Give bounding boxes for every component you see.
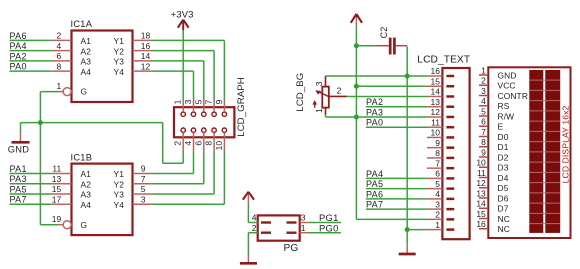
svg-text:13: 13 <box>476 188 486 198</box>
LCD display cell separator 11 <box>529 182 560 184</box>
svg-text:PG0: PG0 <box>319 222 339 233</box>
LCD display module box <box>488 67 570 238</box>
wire IC1B pin 5 horizontal <box>153 193 215 195</box>
LCD display cell separator 12 <box>529 192 560 194</box>
IC1A pin 14 output stub <box>133 51 153 61</box>
svg-text:A1: A1 <box>81 36 92 46</box>
LCD_GRAPH pin 7 stub <box>213 99 215 112</box>
wire GND vertical IC1A G to IC1B G <box>39 92 41 225</box>
LCD_GRAPH pin 10 stub <box>223 133 225 152</box>
IC1A pin name A2 <box>81 46 92 56</box>
wire IC1A G pin <box>40 91 57 93</box>
svg-text:7: 7 <box>481 127 486 137</box>
wire net PA5 to LCD_TEXT pin 5 <box>366 188 427 190</box>
PG pin 3 dash <box>287 213 306 223</box>
wire PG pin 2 to ground <box>248 233 257 262</box>
+3V3 power arrow above C2 <box>351 14 362 25</box>
wire net PA3 to IC1B pin 13 <box>10 183 52 185</box>
wire IC1A pin 16 vertical down to LCD_GRAPH <box>213 51 215 99</box>
junction GND / LCD_TEXT pin 16 / trimmer pin 3 <box>405 74 410 79</box>
svg-text:E: E <box>498 122 504 132</box>
PG pin 1 dash <box>287 223 306 233</box>
LCD_GRAPH pin 10 number <box>214 141 224 151</box>
svg-text:1: 1 <box>314 108 324 113</box>
node PG1 label <box>319 212 339 223</box>
LCD_GRAPH pin 7 number <box>204 99 214 104</box>
IC1A pin name G <box>81 87 88 97</box>
svg-text:IC1A: IC1A <box>71 19 93 29</box>
IC1B pin name G <box>81 220 88 230</box>
junction GND / LCD_TEXT pin 1 <box>405 227 410 232</box>
LCD_TEXT pin 1 dash <box>446 228 454 231</box>
IC1A pin 1 (G) inverted bubble <box>56 81 71 96</box>
node PA3 label at LCD_TEXT <box>366 107 383 117</box>
svg-text:D6: D6 <box>498 193 509 203</box>
svg-text:GND: GND <box>8 145 29 155</box>
wire net PG0 <box>309 232 341 234</box>
LCD_GRAPH pin 3 number <box>183 99 193 104</box>
svg-text:PA0: PA0 <box>366 118 383 128</box>
svg-text:2: 2 <box>173 141 183 146</box>
svg-text:PA5: PA5 <box>366 179 383 189</box>
node PA0 label <box>10 62 27 72</box>
wire IC1B G pin <box>40 224 57 226</box>
svg-text:11: 11 <box>52 164 61 174</box>
svg-text:2: 2 <box>337 86 342 96</box>
svg-text:11: 11 <box>431 117 440 127</box>
LCD_GRAPH pin 1 number <box>173 99 183 104</box>
LCD_GRAPH pin 9 socket <box>222 112 226 116</box>
LCD display pin 13 stub <box>476 188 488 198</box>
LCD display pin 9 stub <box>479 147 488 157</box>
LCD_TEXT pin 13 dash <box>446 105 454 108</box>
trimmer LCD_BG label <box>295 73 306 112</box>
PG pin 3 stub <box>300 222 309 224</box>
IC1B pin name Y3 <box>114 190 125 200</box>
wire net PA7 to IC1B pin 17 <box>10 203 52 205</box>
svg-text:D3: D3 <box>498 163 509 173</box>
wire GND junction to LCD_TEXT pin 1 <box>407 229 427 231</box>
LCD_GRAPH pin 5 stub <box>203 99 205 112</box>
node PA6 label <box>10 31 27 41</box>
IC1A pin name A4 <box>81 67 92 77</box>
wire net PA5 to IC1B pin 15 <box>10 193 52 195</box>
wire +3V3 elbow to LCD_TEXT pin 2 <box>356 218 427 220</box>
svg-text:D7: D7 <box>498 204 509 214</box>
IC1A pin 16 output stub <box>133 41 153 51</box>
ground symbol below LCD_TEXT <box>399 253 416 256</box>
svg-text:D1: D1 <box>498 142 509 152</box>
svg-text:8: 8 <box>56 61 61 71</box>
LCD_TEXT pin 16 dash <box>446 75 454 78</box>
svg-text:8: 8 <box>435 148 440 158</box>
LCD_GRAPH pin 2 socket <box>181 128 185 132</box>
LCD_TEXT pin 15 stub <box>427 76 442 86</box>
LCD display cell separator 5 <box>529 120 560 122</box>
svg-text:A4: A4 <box>81 200 92 210</box>
svg-text:3: 3 <box>435 199 440 209</box>
LCD_GRAPH pin 8 socket <box>212 128 216 132</box>
IC1A pin name A1 <box>81 36 92 46</box>
svg-text:PA4: PA4 <box>366 169 383 179</box>
LCD display pin 12 stub <box>476 178 488 188</box>
wire IC1B pin 7 vertical up to LCD_GRAPH <box>203 152 205 184</box>
LCD_GRAPH pin 5 number <box>193 99 203 104</box>
svg-text:3: 3 <box>481 86 486 96</box>
LCD_TEXT pin 11 stub <box>427 117 442 127</box>
LCD_TEXT pin 15 dash <box>446 85 454 88</box>
wire IC1B pin 7 horizontal <box>153 183 204 185</box>
connector LCD_TEXT box <box>417 55 470 240</box>
LCD_GRAPH pin 4 stub <box>193 133 195 152</box>
svg-text:6: 6 <box>56 51 61 61</box>
LCD_GRAPH pin 3 stub <box>193 99 195 112</box>
svg-text:1: 1 <box>56 81 61 91</box>
wire IC1A pin 12 vertical down to LCD_GRAPH <box>193 71 195 99</box>
wire IC1A pin 18 vertical down to LCD_GRAPH <box>223 40 225 99</box>
wire net PA2 to LCD_TEXT pin 13 <box>366 106 427 108</box>
LCD display pin 10 stub <box>476 158 488 168</box>
wire +3V3 vertical rail <box>355 25 357 219</box>
IC1A pin name Y3 <box>114 57 125 67</box>
svg-text:6: 6 <box>435 169 440 179</box>
IC IC1A buffer box <box>71 19 133 102</box>
LCD display pin name RS <box>498 101 510 111</box>
wire net PA3 row to LCD_TEXT pin 12 <box>326 116 428 118</box>
node PA0 label at LCD_TEXT <box>366 118 383 128</box>
svg-text:CONTR: CONTR <box>498 91 529 101</box>
svg-text:PA5: PA5 <box>10 184 27 194</box>
svg-text:D4: D4 <box>498 173 509 183</box>
node PA4 label at LCD_TEXT <box>366 169 383 179</box>
svg-text:10: 10 <box>476 158 486 168</box>
LCD_TEXT pin 11 dash <box>446 126 454 129</box>
svg-text:9: 9 <box>214 99 224 104</box>
LCD_GRAPH pin 8 stub <box>213 133 215 152</box>
trimmer wiper pin 2 <box>329 86 347 97</box>
LCD_TEXT pin 4 stub <box>427 189 442 199</box>
wire IC1A pin 14 horizontal <box>153 60 204 62</box>
trimmer pin 3 stub <box>325 76 327 87</box>
svg-text:10: 10 <box>214 141 224 151</box>
svg-text:LCD_TEXT: LCD_TEXT <box>417 55 470 66</box>
LCD_TEXT pin 13 stub <box>427 97 442 107</box>
LCD_TEXT pin 9 stub <box>427 138 442 148</box>
LCD_TEXT pin 6 dash <box>446 177 454 180</box>
LCD_GRAPH pin 9 stub <box>223 99 225 112</box>
connector LCD_GRAPH box <box>174 107 234 137</box>
svg-text:GND: GND <box>498 70 517 80</box>
IC1B pin name A3 <box>81 190 92 200</box>
svg-text:7: 7 <box>204 99 214 104</box>
connector LCD_GRAPH label <box>236 77 247 137</box>
IC1A pin 12 output stub <box>133 61 153 71</box>
LCD display glass column left <box>529 70 543 233</box>
capacitor C2 left pin <box>377 45 389 47</box>
LCD_TEXT pin 7 dash <box>446 167 454 170</box>
LCD display glass column right <box>545 70 560 233</box>
IC1A pin 18 output stub <box>133 31 153 41</box>
svg-text:PA6: PA6 <box>10 31 27 41</box>
LCD_TEXT pin 2 stub <box>427 210 442 220</box>
svg-text:G: G <box>81 220 88 230</box>
svg-text:A2: A2 <box>81 46 92 56</box>
wire IC1A pin 14 vertical down to LCD_GRAPH <box>203 61 205 99</box>
node PA5 label at LCD_TEXT <box>366 179 383 189</box>
LCD_GRAPH pin 4 socket <box>191 128 195 132</box>
LCD display pin name D0 <box>498 132 509 142</box>
svg-text:6: 6 <box>481 117 486 127</box>
svg-text:14: 14 <box>141 51 151 61</box>
svg-text:PG: PG <box>284 243 299 254</box>
LCD display pin 8 stub <box>479 137 488 147</box>
LCD display cell separator 2 <box>529 89 560 91</box>
IC1B pin name Y2 <box>114 179 125 189</box>
node PG0 label <box>319 222 339 233</box>
svg-text:2: 2 <box>435 210 440 220</box>
wire net PA0 to LCD_TEXT pin 11 <box>366 126 427 128</box>
wire GND to LCD_GRAPH pin 2: vertical <box>162 123 164 164</box>
LCD display cell separator 8 <box>529 151 560 153</box>
LCD_TEXT pin 5 dash <box>446 187 454 190</box>
LCD display pin name D2 <box>498 152 509 162</box>
LCD display pin name D4 <box>498 173 509 183</box>
svg-text:8: 8 <box>204 141 214 146</box>
LCD_TEXT pin 16 stub <box>427 66 442 76</box>
LCD display pin 16 stub <box>476 219 488 229</box>
svg-text:PA7: PA7 <box>366 200 383 210</box>
capacitor C2 <box>379 27 395 55</box>
LCD display pin name E <box>498 122 504 132</box>
svg-text:D5: D5 <box>498 183 509 193</box>
LCD display cell separator 4 <box>529 110 560 112</box>
svg-text:18: 18 <box>141 31 151 41</box>
svg-text:Y3: Y3 <box>114 57 125 67</box>
wire +3V3 down to LCD_GRAPH pin 1 <box>182 30 184 99</box>
IC IC1B buffer box <box>71 152 133 235</box>
svg-text:A1: A1 <box>81 169 92 179</box>
svg-text:Y2: Y2 <box>114 46 125 56</box>
PG pin 4 dash <box>252 213 271 223</box>
IC1B pin 13 (A2) input stub <box>51 174 71 184</box>
svg-text:1: 1 <box>481 65 486 75</box>
svg-text:NC: NC <box>498 224 510 234</box>
svg-text:A3: A3 <box>81 190 92 200</box>
svg-text:PA2: PA2 <box>366 97 383 107</box>
LCD display pin 5 stub <box>479 106 488 116</box>
svg-text:16: 16 <box>431 66 441 76</box>
LCD display cell separator 15 <box>529 223 560 225</box>
junction +3V3 / trimmer pin 1 / PA3 <box>354 114 359 119</box>
LCD_TEXT pin 5 stub <box>427 179 442 189</box>
IC1B pin 5 output stub <box>133 184 153 194</box>
LCD display pin 1 stub <box>479 65 488 75</box>
LCD_GRAPH pin 6 number <box>193 141 203 146</box>
svg-text:2: 2 <box>481 76 486 86</box>
LCD display cell separator 7 <box>529 141 560 143</box>
LCD_TEXT pin 6 stub <box>427 169 442 179</box>
LCD_TEXT pin 12 stub <box>427 107 442 117</box>
svg-text:+3V3: +3V3 <box>171 9 194 20</box>
svg-text:3: 3 <box>141 194 146 204</box>
svg-text:Y4: Y4 <box>114 67 125 77</box>
LCD_GRAPH pin 10 socket <box>222 128 226 132</box>
wire net PA6 to LCD_TEXT pin 4 <box>366 198 427 200</box>
svg-text:LCD_BG: LCD_BG <box>295 73 306 112</box>
svg-text:VCC: VCC <box>498 81 516 91</box>
wire +3V3 to C2 <box>356 45 376 47</box>
svg-text:15: 15 <box>431 76 441 86</box>
trimmer wiper arrow <box>315 90 328 96</box>
LCD display pin name D5 <box>498 183 509 193</box>
node PA5 label <box>10 184 27 194</box>
svg-text:Y1: Y1 <box>114 36 125 46</box>
LCD display pin name D3 <box>498 163 509 173</box>
svg-text:13: 13 <box>52 174 62 184</box>
svg-text:4: 4 <box>435 189 440 199</box>
LCD_TEXT pin 14 stub <box>427 87 442 97</box>
wire net PA4 to LCD_TEXT pin 6 <box>366 177 427 179</box>
LCD display pin 14 stub <box>476 199 488 209</box>
wire IC1B pin 9 vertical up to LCD_GRAPH <box>193 152 195 174</box>
LCD_TEXT pin 9 dash <box>446 146 454 149</box>
IC1B pin 15 (A3) input stub <box>51 184 71 194</box>
LCD_GRAPH pin 2 number <box>173 141 183 146</box>
svg-text:PA0: PA0 <box>10 62 27 72</box>
wire net PA2 to IC1A pin 6 <box>10 60 52 62</box>
svg-text:16: 16 <box>476 219 486 229</box>
svg-text:Y3: Y3 <box>114 190 125 200</box>
IC1A pin 2 (A1) input stub <box>51 31 71 41</box>
LCD display value label <box>561 106 571 184</box>
node PA4 label <box>10 41 27 51</box>
trimmer LCD_BG body <box>322 87 329 108</box>
LCD_TEXT pin 14 dash <box>446 95 454 98</box>
node PA2 label <box>10 51 27 61</box>
LCD display pin 4 stub <box>479 96 488 106</box>
svg-text:1: 1 <box>435 220 440 230</box>
wire GND up into LCD_GRAPH pin 2 <box>182 152 184 164</box>
LCD display pin name NC <box>498 214 510 224</box>
svg-text:C2: C2 <box>379 27 389 39</box>
trimmer pin 3 number <box>314 81 324 86</box>
wire IC1B pin 5 vertical up to LCD_GRAPH <box>213 152 215 194</box>
svg-text:9: 9 <box>481 147 486 157</box>
wire +3V3 to PG pin 4 <box>248 203 257 223</box>
svg-text:12: 12 <box>431 107 441 117</box>
capacitor C2 right pin <box>396 45 407 47</box>
LCD display cell separator 9 <box>529 161 560 163</box>
wire IC1B pin 3 vertical up to LCD_GRAPH <box>223 152 225 205</box>
LCD_GRAPH pin 9 number <box>214 99 224 104</box>
svg-text:PA3: PA3 <box>366 107 383 117</box>
LCD display pin 2 stub <box>479 76 488 86</box>
svg-text:A4: A4 <box>81 67 92 77</box>
LCD display pin 3 stub <box>479 86 488 96</box>
svg-text:PA3: PA3 <box>10 174 27 184</box>
svg-text:4: 4 <box>252 213 257 223</box>
svg-text:D0: D0 <box>498 132 509 142</box>
IC1B pin name A2 <box>81 179 92 189</box>
node PA6 label at LCD_TEXT <box>366 189 383 199</box>
PG pin 1 stub <box>300 232 309 234</box>
wire trimmer pin 3 to LCD_TEXT pin 16 <box>326 75 428 77</box>
ground symbol below PG <box>240 262 257 265</box>
IC1B pin 17 (A4) input stub <box>51 194 71 204</box>
svg-text:RS: RS <box>498 101 510 111</box>
LCD display pin name GND <box>498 70 517 80</box>
svg-text:5: 5 <box>481 106 486 116</box>
LCD display cell separator 14 <box>529 212 560 214</box>
LCD display pin name VCC <box>498 81 516 91</box>
IC1A pin name Y2 <box>114 46 125 56</box>
svg-text:8: 8 <box>481 137 486 147</box>
svg-text:G: G <box>81 87 88 97</box>
LCD_GRAPH pin 1 stub <box>182 99 184 112</box>
svg-text:A2: A2 <box>81 179 92 189</box>
svg-text:PA7: PA7 <box>10 195 27 205</box>
svg-text:15: 15 <box>476 209 486 219</box>
wire net PA4 to IC1A pin 4 <box>10 50 52 52</box>
svg-text:12: 12 <box>141 61 151 71</box>
IC1B pin name Y4 <box>114 200 125 210</box>
IC1B pin 19 (G) inverted bubble <box>52 214 71 229</box>
wire IC1A pin 18 horizontal <box>153 39 225 41</box>
wire net PA6 to IC1A pin 2 <box>10 39 52 41</box>
wire trimmer pin 1 down <box>325 115 327 117</box>
svg-text:9: 9 <box>435 138 440 148</box>
LCD display pin name D1 <box>498 142 509 152</box>
wire GND to LCD_GRAPH pin 2: horizontal <box>163 162 184 164</box>
IC1B pin name A1 <box>81 169 92 179</box>
wire IC1A pin 12 horizontal <box>153 70 194 72</box>
svg-text:A3: A3 <box>81 57 92 67</box>
LCD_TEXT pin 10 stub <box>427 128 442 138</box>
LCD_TEXT pin 2 dash <box>446 218 454 221</box>
LCD_GRAPH pin 7 socket <box>212 112 216 116</box>
junction +3V3 / LCD_TEXT pin 15 <box>354 84 359 89</box>
wire GND vertical rail <box>406 47 408 245</box>
LCD display pin name NC <box>498 224 510 234</box>
+3V3 power arrow above PG <box>243 192 254 203</box>
svg-text:7: 7 <box>141 174 146 184</box>
trimmer pin 1 number <box>314 108 324 113</box>
svg-text:11: 11 <box>477 168 486 178</box>
LCD display pin name D6 <box>498 193 509 203</box>
LCD display pin name CONTR <box>498 91 529 101</box>
IC1A pin 8 (A4) input stub <box>51 61 71 71</box>
svg-text:Y2: Y2 <box>114 179 125 189</box>
LCD display pin name D7 <box>498 204 509 214</box>
LCD_TEXT pin 3 stub <box>427 199 442 209</box>
wire IC1B pin 9 horizontal <box>153 173 194 175</box>
IC1A pin 6 (A3) input stub <box>51 51 71 61</box>
svg-text:2: 2 <box>56 31 61 41</box>
svg-text:PA2: PA2 <box>10 51 27 61</box>
LCD_TEXT pin 7 stub <box>427 158 442 168</box>
svg-text:3: 3 <box>183 99 193 104</box>
LCD display cell separator 1 <box>529 79 560 81</box>
svg-text:5: 5 <box>193 99 203 104</box>
wire IC1B pin 3 horizontal <box>153 203 225 205</box>
LCD display cell separator 13 <box>529 202 560 204</box>
IC1B pin 9 output stub <box>133 164 153 174</box>
svg-text:PA1: PA1 <box>10 164 27 174</box>
svg-text:IC1B: IC1B <box>71 152 93 162</box>
IC1A pin 4 (A2) input stub <box>51 41 71 51</box>
PG pin 2 dash <box>252 223 271 233</box>
LCD_GRAPH pin 6 socket <box>202 128 206 132</box>
